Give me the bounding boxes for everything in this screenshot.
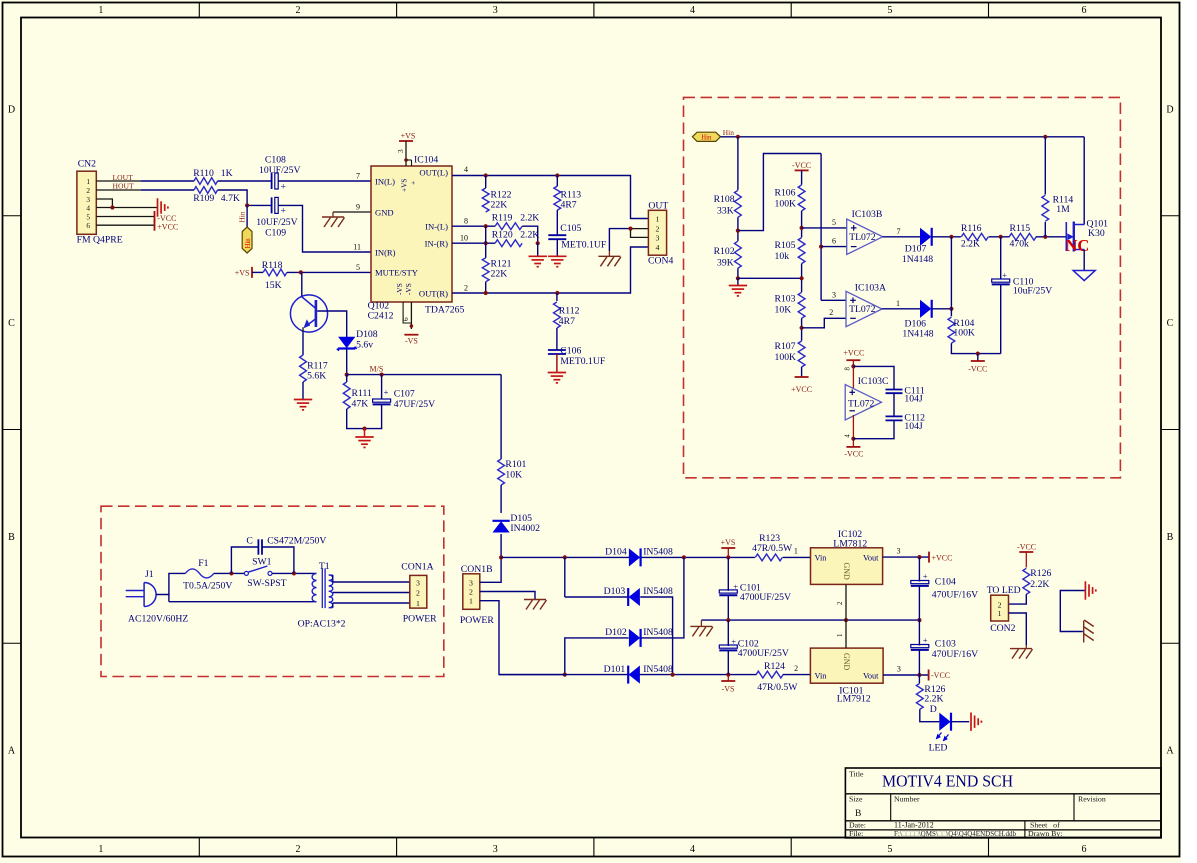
- svg-text:10: 10: [460, 234, 468, 243]
- junction C110 top: [999, 235, 1003, 239]
- svg-text:4R7: 4R7: [559, 316, 575, 327]
- svg-text:1: 1: [86, 177, 90, 186]
- svg-text:6: 6: [86, 221, 90, 230]
- wire F1 to SW1: [214, 572, 245, 574]
- power -VS below rail: [727, 675, 729, 681]
- svg-text:A: A: [1166, 745, 1174, 756]
- wire Hin to Q101 drain: [1083, 137, 1085, 225]
- svg-text:HOUT: HOUT: [113, 182, 134, 191]
- wire CON1B pin1: [480, 601, 565, 675]
- svg-text:SW1: SW1: [252, 557, 272, 568]
- svg-text:-VCC: -VCC: [968, 365, 987, 374]
- wire R106 R105: [801, 211, 803, 238]
- svg-text:7: 7: [897, 227, 901, 236]
- diode D103: [565, 596, 629, 598]
- svg-text:1: 1: [98, 5, 103, 16]
- capacitor C101: [727, 557, 729, 591]
- svg-text:3: 3: [897, 665, 901, 674]
- junction pin8: [851, 364, 855, 368]
- svg-text:IN(R): IN(R): [375, 247, 396, 257]
- earth ground tied: [1084, 620, 1094, 643]
- svg-text:R108: R108: [714, 194, 735, 205]
- svg-text:+: +: [731, 636, 736, 646]
- resistor R124: [756, 671, 783, 678]
- dashed box AC input: [101, 506, 444, 676]
- svg-text:M/S: M/S: [370, 365, 384, 374]
- wire AC1 to D103: [564, 557, 566, 597]
- power +VCC at CN2: [154, 220, 156, 231]
- fuse F1: [185, 569, 214, 578]
- svg-text:4: 4: [690, 5, 695, 16]
- wire R104 C110 bottom: [951, 343, 1000, 353]
- svg-text:2: 2: [464, 283, 468, 292]
- junction R114 bottom: [1043, 235, 1047, 239]
- svg-text:1: 1: [837, 634, 844, 637]
- svg-text:TDA7265: TDA7265: [425, 304, 464, 315]
- svg-text:A: A: [8, 745, 16, 756]
- svg-text:R102: R102: [714, 246, 735, 257]
- svg-text:6: 6: [1082, 5, 1087, 16]
- wire CN2 pin1 stub: [96, 180, 141, 182]
- svg-text:SW-SPST: SW-SPST: [247, 578, 286, 589]
- svg-text:10uF/25V: 10uF/25V: [1013, 285, 1052, 296]
- resistor R115: [1009, 233, 1036, 240]
- wire Hin top rail: [721, 136, 1085, 138]
- wire to IC103A pin2: [802, 318, 846, 328]
- resistor R105: [798, 238, 805, 264]
- capacitor C111: [886, 389, 903, 391]
- svg-text:IC103C: IC103C: [858, 376, 889, 387]
- junction Hin tap: [245, 203, 249, 207]
- svg-text:104J: 104J: [904, 421, 923, 432]
- svg-text:F:\□□□□\QMS\□□\Q4\Q4Q4ENDSCH.d: F:\□□□□\QMS\□□\Q4\Q4Q4ENDSCH.ddb: [894, 830, 1017, 838]
- resistor R117: [300, 355, 307, 382]
- svg-text:IN-(R): IN-(R): [425, 239, 449, 249]
- diode D102: [629, 630, 639, 646]
- wire CN2 pin5: [96, 216, 154, 218]
- svg-text:2.2K: 2.2K: [961, 238, 980, 249]
- svg-text:Hin: Hin: [723, 128, 734, 137]
- svg-text:2.2K: 2.2K: [520, 230, 539, 241]
- svg-text:Vout: Vout: [863, 671, 879, 680]
- wire CN2 pin2 stub: [96, 189, 141, 191]
- capacitor C102: [727, 620, 729, 646]
- svg-text:8: 8: [464, 217, 468, 226]
- svg-text:Size: Size: [849, 795, 863, 804]
- connector CON1A: [410, 575, 427, 608]
- wire R112 to C106: [556, 328, 558, 350]
- svg-text:R118: R118: [262, 260, 283, 271]
- svg-text:C106: C106: [560, 346, 581, 357]
- svg-text:10K: 10K: [505, 469, 522, 480]
- resistor R104: [948, 317, 955, 343]
- ground bars C107: [364, 429, 366, 437]
- svg-text:IN5408: IN5408: [643, 547, 673, 558]
- svg-text:AC120V/60HZ: AC120V/60HZ: [128, 614, 188, 625]
- svg-text:CON1B: CON1B: [461, 564, 493, 575]
- svg-text:R121: R121: [491, 258, 512, 269]
- svg-text:R103: R103: [775, 293, 796, 304]
- svg-text:1: 1: [656, 215, 660, 224]
- svg-text:3: 3: [897, 547, 901, 556]
- svg-text:-VS: -VS: [395, 283, 404, 295]
- svg-text:IN(L): IN(L): [375, 176, 395, 186]
- svg-text:2: 2: [295, 844, 300, 855]
- svg-text:1: 1: [998, 609, 1002, 618]
- svg-text:5.6v: 5.6v: [356, 340, 373, 351]
- resistor R121: [482, 258, 489, 282]
- svg-text:+VCC: +VCC: [791, 385, 812, 394]
- wire -VCC to R106: [801, 170, 803, 184]
- junction OUT(L) R113: [555, 173, 559, 177]
- wire to IC103A pin3: [821, 299, 846, 301]
- junction R108 R102: [736, 229, 740, 233]
- svg-text:3: 3: [396, 149, 405, 153]
- earth ground IC104 GND: [332, 212, 334, 217]
- svg-text:IN4002: IN4002: [510, 523, 540, 534]
- svg-text:2.2K: 2.2K: [520, 213, 539, 224]
- junction +VCC out: [917, 555, 921, 559]
- svg-text:-VCC: -VCC: [844, 449, 863, 458]
- wire R108 R102: [737, 217, 739, 241]
- svg-text:MOTIV4 END SCH: MOTIV4 END SCH: [882, 772, 1013, 791]
- svg-text:1K: 1K: [221, 168, 233, 179]
- earth ground CON4: [608, 251, 610, 256]
- junction gnd b: [844, 618, 848, 622]
- wire J1 bottom to T1: [168, 595, 170, 602]
- junction gnd a: [726, 618, 730, 622]
- svg-text:3: 3: [469, 578, 473, 587]
- svg-text:Vin: Vin: [815, 553, 828, 562]
- svg-text:C105: C105: [560, 223, 581, 234]
- junction R102 gnd: [736, 276, 740, 280]
- svg-text:R106: R106: [775, 187, 796, 198]
- wire D105 to rail: [500, 534, 502, 557]
- junction M/S a: [345, 373, 349, 377]
- wire R102 to ground: [737, 268, 739, 278]
- svg-text:C107: C107: [394, 389, 415, 400]
- svg-text:C: C: [246, 535, 252, 546]
- svg-text:2: 2: [656, 225, 660, 234]
- svg-text:T1: T1: [319, 561, 330, 572]
- wire R111 C107 to ground: [347, 404, 382, 428]
- wire R109 to C109: [218, 190, 272, 205]
- transistor Q101 K30: [1065, 222, 1067, 251]
- capacitor C109: [271, 197, 273, 213]
- svg-text:2: 2: [829, 308, 833, 317]
- junction +VS b: [726, 555, 730, 559]
- junction -VS pins: [410, 324, 414, 328]
- wire to IC103B pin5: [802, 227, 847, 229]
- svg-text:-VCC: -VCC: [931, 671, 950, 680]
- resistor R107: [798, 341, 805, 367]
- svg-text:GND: GND: [375, 207, 394, 217]
- junction detector: [949, 235, 953, 239]
- zener D108: [339, 337, 354, 347]
- capacitor C104: [918, 557, 920, 581]
- svg-text:+: +: [733, 581, 738, 591]
- junction base tap: [299, 270, 303, 274]
- svg-text:C109: C109: [265, 228, 286, 239]
- junction -VCC out: [917, 673, 921, 677]
- wire R119 to R120 out: [522, 226, 538, 243]
- junction divider mid: [800, 276, 804, 280]
- junction pin3/pin4: [110, 205, 114, 209]
- svg-text:IN-(L): IN-(L): [425, 222, 448, 232]
- ground bars R120: [529, 256, 547, 266]
- svg-text:MET0.1UF: MET0.1UF: [561, 240, 607, 251]
- capacitor C108: [271, 173, 273, 189]
- capacitor C105: [548, 234, 566, 236]
- svg-text:1: 1: [469, 597, 473, 606]
- svg-text:+VS: +VS: [401, 131, 416, 140]
- wire D102 up: [642, 557, 684, 638]
- wire D108 to M/S: [346, 350, 348, 375]
- ground bars C106: [548, 373, 566, 383]
- ground bars LED: [971, 713, 981, 731]
- wire R115 to gate: [1036, 236, 1066, 238]
- capacitor C110: [1000, 237, 1002, 279]
- svg-text:+VS: +VS: [235, 269, 250, 278]
- resistor R120: [495, 240, 522, 247]
- junction IN-(L): [484, 224, 488, 228]
- transistor Q102: [290, 295, 327, 332]
- wire Hin drop: [246, 205, 248, 227]
- svg-text:-VS: -VS: [405, 337, 418, 346]
- ground bars R117: [294, 400, 312, 410]
- junction gnd c: [917, 618, 921, 622]
- transformer T1: [312, 573, 316, 580]
- diode D107: [921, 229, 931, 245]
- svg-text:47R/0.5W: 47R/0.5W: [757, 682, 798, 693]
- wire R126 to LED: [920, 709, 940, 721]
- resistor R116: [961, 233, 988, 240]
- wire CN2 pin6: [96, 224, 154, 226]
- wire emitter to R117: [302, 332, 304, 355]
- wire R103 R107: [801, 318, 803, 341]
- wire T1 sec taps: [333, 581, 410, 583]
- power -VCC below R104: [977, 354, 979, 361]
- svg-text:5: 5: [887, 5, 892, 16]
- wire IC103A out to D106: [882, 308, 920, 310]
- svg-text:OP:AC13*2: OP:AC13*2: [298, 619, 346, 630]
- svg-text:Hin: Hin: [245, 238, 252, 249]
- wire -VS rail: [499, 674, 757, 676]
- junction pin4: [851, 437, 855, 441]
- wire C109 to IC104 IN(R): [278, 205, 371, 252]
- op-amp IC103B: [847, 219, 883, 254]
- svg-text:C2412: C2412: [368, 310, 394, 321]
- wire detector vertical: [950, 237, 952, 316]
- wire D102: [565, 638, 629, 675]
- junction ground C107: [362, 427, 366, 431]
- ground bars tied: [1085, 581, 1095, 599]
- svg-text:1: 1: [416, 599, 420, 608]
- svg-text:LM7812: LM7812: [833, 539, 867, 550]
- svg-text:4: 4: [464, 165, 468, 174]
- wire +VS rail: [501, 556, 755, 558]
- svg-text:File:: File:: [849, 829, 863, 838]
- svg-text:CN2: CN2: [78, 159, 96, 170]
- svg-text:R116: R116: [961, 223, 982, 234]
- connector CN2: [77, 171, 96, 234]
- junction OUT(R) R121: [484, 291, 488, 295]
- junction R104 top: [949, 307, 953, 311]
- svg-text:CON1A: CON1A: [401, 562, 433, 573]
- svg-text:6: 6: [832, 237, 836, 246]
- capacitor C103: [918, 620, 920, 645]
- wire CON1B pin2: [480, 592, 535, 600]
- svg-text:1N4148: 1N4148: [902, 329, 933, 340]
- svg-text:-VS: -VS: [722, 684, 735, 693]
- svg-text:+: +: [409, 181, 418, 185]
- svg-text:IN5408: IN5408: [643, 586, 673, 597]
- wire tied grounds: [1060, 591, 1084, 632]
- svg-text:B: B: [855, 809, 861, 819]
- wire R110 to C108: [218, 180, 272, 182]
- junction AC2 node: [563, 673, 567, 677]
- resistor R111: [346, 375, 348, 382]
- wire CON1B pin3: [480, 557, 501, 582]
- wire R116 R115: [989, 236, 1010, 238]
- connector CON4: [648, 210, 666, 255]
- resistor R112: [556, 293, 558, 301]
- wire CN2 pin3: [96, 199, 112, 208]
- svg-text:R119: R119: [492, 213, 513, 224]
- svg-text:5: 5: [86, 212, 90, 221]
- resistor R113: [554, 186, 561, 210]
- dashed box signal detect: [684, 97, 1121, 477]
- wire R118 junction to collector: [301, 272, 303, 297]
- svg-text:R124: R124: [764, 661, 785, 672]
- svg-text:4R7: 4R7: [561, 200, 577, 211]
- svg-text:1: 1: [896, 299, 900, 308]
- svg-text:2: 2: [794, 664, 798, 673]
- diode D106: [921, 301, 931, 317]
- svg-text:D108: D108: [356, 329, 378, 340]
- resistor R122: [482, 188, 489, 212]
- wire R113 to C105: [556, 176, 558, 187]
- svg-text:MET0.1UF: MET0.1UF: [560, 356, 606, 367]
- svg-text:6: 6: [1082, 844, 1087, 855]
- svg-text:K30: K30: [1088, 228, 1105, 239]
- svg-text:CON2: CON2: [990, 623, 1015, 634]
- svg-text:2: 2: [295, 5, 300, 16]
- svg-text:R115: R115: [1010, 223, 1031, 234]
- svg-text:104J: 104J: [904, 394, 923, 405]
- power -VCC at CN2: [154, 211, 156, 222]
- svg-text:39K: 39K: [717, 258, 734, 269]
- wire R118 to IC104 MUTE: [287, 271, 371, 273]
- svg-text:-VCC: -VCC: [157, 214, 176, 223]
- svg-text:F1: F1: [198, 558, 208, 569]
- svg-text:CS472M/250V: CS472M/250V: [267, 535, 326, 546]
- wire SW1 to T1: [272, 572, 317, 574]
- svg-text:+: +: [923, 571, 928, 581]
- wire HOUT to R109: [141, 189, 194, 191]
- svg-text:15K: 15K: [265, 280, 282, 291]
- svg-text:D103: D103: [604, 586, 626, 597]
- junction CON4 pin2: [628, 227, 632, 231]
- wire IC102 pin2: [845, 584, 847, 620]
- wire LED to ground: [952, 721, 969, 723]
- LED D: [940, 714, 950, 730]
- junction cap right: [292, 571, 296, 575]
- IC IC102 LM7812: [811, 548, 883, 585]
- ground bars C105: [548, 256, 566, 266]
- earth ground rail: [700, 620, 702, 626]
- switch SW1: [244, 571, 248, 575]
- junction -VS a: [671, 673, 675, 677]
- svg-text:5: 5: [887, 844, 892, 855]
- wire CN2 pin4: [96, 207, 157, 209]
- svg-text:11: 11: [353, 243, 361, 252]
- power -VS below IC104: [404, 334, 418, 336]
- resistor R119: [495, 223, 522, 230]
- svg-text:FM Q4PRE: FM Q4PRE: [77, 235, 123, 246]
- svg-text:Vin: Vin: [815, 671, 828, 680]
- junction -VS b: [726, 673, 730, 677]
- svg-text:47R/0.5W: 47R/0.5W: [752, 543, 793, 554]
- svg-text:D: D: [1166, 105, 1173, 116]
- resistor R126 low: [918, 675, 920, 683]
- svg-text:2: 2: [469, 587, 473, 596]
- resistor R101: [500, 375, 502, 459]
- svg-text:B: B: [8, 532, 15, 543]
- resistor R109: [194, 187, 218, 194]
- power +VCC right: [928, 552, 930, 563]
- svg-text:4700UF/25V: 4700UF/25V: [738, 648, 789, 659]
- svg-text:2.2K: 2.2K: [1030, 579, 1049, 590]
- svg-text:D102: D102: [605, 627, 627, 638]
- diode D104: [629, 549, 639, 565]
- svg-text:C104: C104: [935, 577, 956, 588]
- capacitor C107: [381, 375, 383, 399]
- resistor R123: [755, 554, 782, 561]
- wire base to D108: [317, 311, 347, 338]
- svg-text:GND: GND: [842, 563, 851, 581]
- svg-text:-VS: -VS: [404, 283, 413, 295]
- IC IC104 TDA7265: [371, 166, 452, 302]
- svg-text:5: 5: [356, 263, 360, 272]
- svg-text:OUT(L): OUT(L): [419, 167, 448, 177]
- wire J1 top: [156, 573, 185, 594]
- resistor R108: [735, 190, 742, 217]
- svg-text:+: +: [281, 182, 286, 192]
- resistor R118: [263, 269, 287, 276]
- svg-text:47K: 47K: [352, 398, 369, 409]
- power -VCC below IC103C: [846, 446, 860, 448]
- wire R105 R103: [801, 264, 803, 293]
- svg-text:R112: R112: [559, 306, 580, 317]
- svg-text:5.6K: 5.6K: [307, 371, 326, 382]
- wire CON2 pin1 to ground: [1009, 613, 1027, 645]
- junction AC1 node: [499, 555, 503, 559]
- svg-text:TO LED: TO LED: [987, 585, 1021, 596]
- wire fb up: [738, 154, 821, 231]
- wire D103 down: [640, 597, 672, 675]
- svg-text:POWER: POWER: [460, 615, 494, 626]
- svg-text:+VS: +VS: [721, 538, 736, 547]
- svg-text:LED: LED: [929, 743, 948, 754]
- svg-text:D104: D104: [605, 547, 627, 558]
- svg-text:47UF/25V: 47UF/25V: [394, 399, 435, 410]
- svg-text:Vout: Vout: [863, 553, 879, 562]
- svg-text:3: 3: [832, 290, 836, 299]
- earth ground CON2: [1025, 645, 1027, 649]
- junction OUT(L) R122: [484, 173, 488, 177]
- junction Hin R108: [736, 135, 740, 139]
